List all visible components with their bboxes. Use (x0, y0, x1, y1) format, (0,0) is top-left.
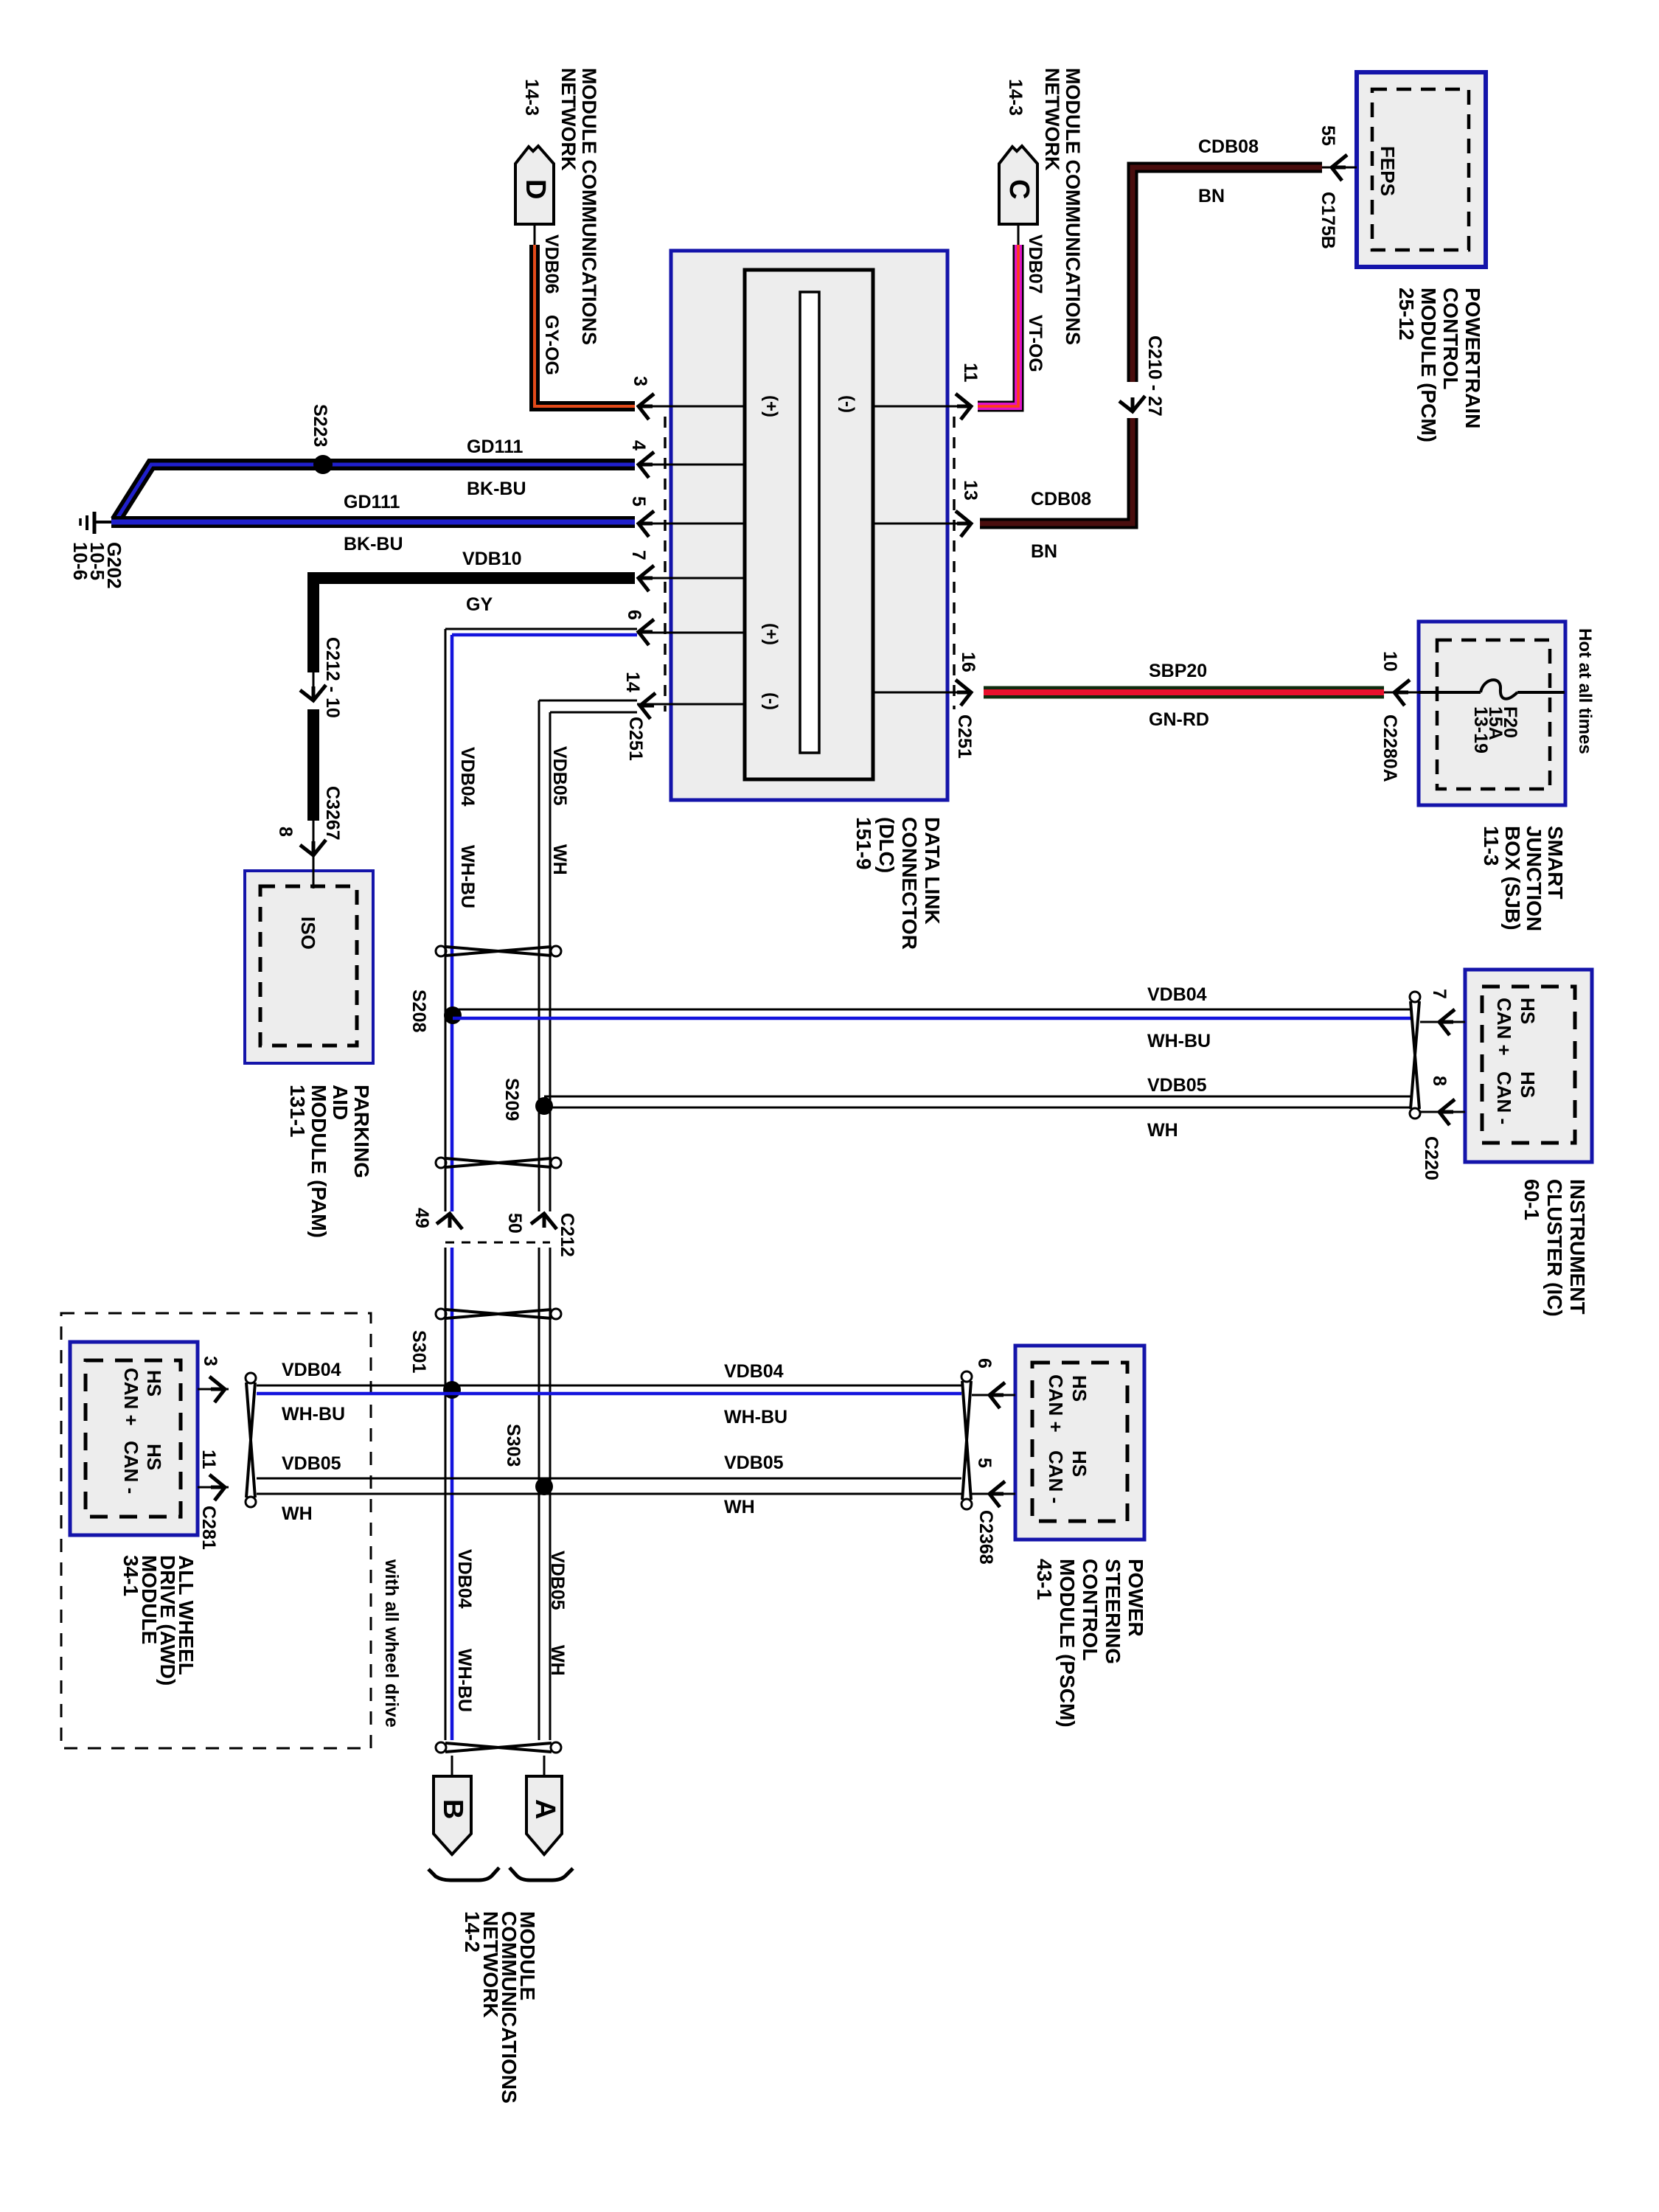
svg-text:S301: S301 (408, 1330, 429, 1373)
svg-text:B: B (437, 1799, 468, 1819)
svg-text:14-3: 14-3 (1005, 79, 1026, 116)
svg-text:NETWORK: NETWORK (1041, 68, 1063, 171)
box: power steering control module (PSCM) (1015, 1346, 1144, 1540)
svg-text:6: 6 (624, 610, 644, 620)
svg-text:60-1: 60-1 (1520, 1179, 1543, 1220)
svg-text:49: 49 (411, 1208, 432, 1228)
wire VDB07 VT-OG from C to DLC pin 11 (978, 245, 1018, 406)
svg-text:S209: S209 (501, 1078, 522, 1121)
svg-text:7: 7 (1429, 989, 1450, 999)
svg-text:CONTROL: CONTROL (1079, 1559, 1102, 1660)
svg-text:(+): (+) (761, 395, 781, 417)
in-line connector C212-10 arrow (313, 672, 315, 699)
svg-text:HS: HS (1068, 1375, 1091, 1402)
svg-text:SMART: SMART (1544, 826, 1567, 900)
pin 6 of PSCM (972, 1394, 1015, 1397)
box: data link connector (DLC) (671, 251, 947, 800)
svg-text:10: 10 (1380, 651, 1400, 672)
connector C251 dashed line right (953, 417, 956, 709)
pin 5 of PSCM (972, 1493, 1015, 1495)
wire SBP20 GN-RD from SJB to DLC pin 16 (984, 686, 1384, 699)
pin line into PAM (313, 855, 315, 888)
wire stub from C (1018, 224, 1020, 246)
svg-text:VDB04: VDB04 (457, 747, 478, 807)
box: all wheel drive module (AWD) (70, 1342, 198, 1535)
svg-text:VDB10: VDB10 (462, 549, 522, 569)
svg-text:CAN -: CAN - (1045, 1450, 1067, 1503)
box: parking aid module (PAM) (245, 871, 373, 1063)
DLC internal pin lines right (pins 11,13,16) (873, 406, 970, 408)
twisted pair symbol 1 (445, 947, 552, 956)
svg-text:PARKING: PARKING (350, 1085, 373, 1178)
svg-text:WH: WH (724, 1497, 755, 1517)
svg-text:POWER: POWER (1124, 1559, 1147, 1637)
svg-text:C281: C281 (198, 1506, 219, 1550)
svg-text:VDB05: VDB05 (724, 1453, 784, 1473)
svg-text:VDB04: VDB04 (282, 1360, 341, 1380)
svg-text:NETWORK: NETWORK (557, 68, 580, 171)
svg-text:13-19: 13-19 (1470, 706, 1491, 754)
svg-text:7: 7 (628, 550, 649, 560)
svg-text:CONTROL: CONTROL (1439, 288, 1462, 389)
connector C251 dashed line left (664, 417, 667, 712)
svg-text:VDB04: VDB04 (724, 1361, 784, 1382)
pin 7 of IC (1420, 1021, 1465, 1023)
svg-text:SBP20: SBP20 (1149, 661, 1207, 681)
svg-text:WH-BU: WH-BU (1147, 1031, 1211, 1051)
svg-text:with all wheel drive: with all wheel drive (381, 1559, 402, 1728)
svg-text:CONNECTOR: CONNECTOR (898, 817, 921, 950)
IC inner dashed outline (1482, 987, 1575, 1143)
svg-text:BK-BU: BK-BU (467, 479, 526, 499)
svg-text:VDB05: VDB05 (549, 746, 570, 806)
svg-text:5: 5 (628, 496, 649, 507)
dashed enclosure: with all wheel drive option (61, 1313, 371, 1748)
svg-text:GD111: GD111 (467, 437, 524, 457)
svg-text:11: 11 (198, 1450, 219, 1470)
svg-text:WH: WH (549, 844, 570, 875)
wire VDB05 WH vertical (strand 2) (550, 712, 637, 714)
svg-text:CAN +: CAN + (1493, 998, 1515, 1056)
svg-text:C175B: C175B (1318, 192, 1338, 249)
twisted pair symbol at IC (1411, 1001, 1419, 1109)
svg-text:VDB04: VDB04 (454, 1549, 475, 1609)
female terminal arrow at SJB pin 10 (1394, 680, 1410, 706)
svg-text:WH-BU: WH-BU (724, 1407, 787, 1427)
svg-text:C210 - 27: C210 - 27 (1144, 335, 1165, 417)
pin 11 of AWD (198, 1486, 229, 1489)
svg-text:CAN -: CAN - (120, 1441, 142, 1494)
svg-text:D: D (520, 179, 551, 199)
svg-text:50: 50 (504, 1213, 525, 1234)
svg-text:BK-BU: BK-BU (344, 534, 403, 554)
wire VDB04 WH-BU AWD pin 3 to PSCM pin 6 (257, 1385, 961, 1387)
female terminal arrow at PCM pin 55 (1332, 155, 1347, 181)
wire GD111 BK-BU ground to DLC pin 5 (lower) (111, 516, 635, 528)
twisted pair symbol at AWD (246, 1382, 255, 1498)
svg-text:HS: HS (1517, 998, 1539, 1024)
svg-text:C212 - 10: C212 - 10 (322, 637, 343, 718)
svg-text:8: 8 (1429, 1076, 1450, 1086)
svg-text:Hot at all times: Hot at all times (1575, 628, 1595, 754)
svg-text:8: 8 (275, 827, 296, 837)
svg-text:CLUSTER (IC): CLUSTER (IC) (1543, 1179, 1566, 1317)
svg-text:11-3: 11-3 (1480, 826, 1503, 866)
svg-text:(-): (-) (838, 395, 858, 413)
svg-text:C2368: C2368 (975, 1510, 996, 1565)
pin line into PCM (1321, 167, 1357, 169)
wire VDB10 from C212 to C3267 (307, 709, 319, 821)
SJB inner dashed outline (1437, 640, 1550, 789)
pin 8 of IC (1420, 1111, 1465, 1113)
DLC center key slot (800, 292, 819, 753)
svg-text:STEERING: STEERING (1102, 1559, 1124, 1664)
off-page arrow C (999, 146, 1037, 224)
svg-text:GD111: GD111 (344, 492, 400, 512)
svg-text:VT-OG: VT-OG (1025, 315, 1046, 372)
PAM inner dashed outline (260, 886, 357, 1046)
DLC inner connector body (745, 270, 873, 779)
svg-text:MODULE COMMUNICATIONS: MODULE COMMUNICATIONS (578, 68, 600, 345)
AWD inner dashed outline (86, 1360, 181, 1517)
svg-text:C220: C220 (1421, 1136, 1441, 1180)
svg-text:C251: C251 (954, 714, 975, 759)
wire VDB05 WH AWD pin 11 to PSCM pin 5 (257, 1478, 961, 1480)
svg-text:GN-RD: GN-RD (1149, 709, 1209, 730)
svg-text:ISO: ISO (297, 917, 319, 950)
svg-text:10-6: 10-6 (69, 542, 91, 580)
svg-text:C: C (1004, 179, 1034, 199)
svg-text:FEPS: FEPS (1377, 146, 1399, 196)
svg-text:(DLC): (DLC) (875, 817, 898, 873)
svg-text:MODULE (PAM): MODULE (PAM) (307, 1085, 330, 1238)
svg-text:5: 5 (974, 1458, 995, 1468)
svg-text:VDB07: VDB07 (1025, 234, 1046, 294)
svg-text:C212: C212 (557, 1213, 577, 1257)
svg-text:C3267: C3267 (322, 786, 343, 841)
svg-text:HS: HS (1068, 1450, 1091, 1477)
svg-text:VDB06: VDB06 (541, 234, 562, 294)
wire VDB04 WH-BU from S208 to IC pin 7 (453, 1009, 1411, 1011)
svg-text:55: 55 (1318, 125, 1338, 146)
twisted pair symbol 2 (445, 1158, 552, 1167)
svg-text:34-1: 34-1 (119, 1555, 142, 1596)
wire GD111 BK-BU ground to DLC pin 4 (upper) (116, 465, 635, 521)
svg-text:CDB08: CDB08 (1198, 136, 1259, 157)
svg-text:GY: GY (466, 594, 493, 615)
splice S208 (444, 1006, 462, 1024)
svg-text:C2280A: C2280A (1380, 714, 1400, 782)
in-line connector C3267 arrow (313, 821, 315, 854)
svg-text:14-3: 14-3 (521, 79, 542, 116)
svg-text:(-): (-) (761, 692, 781, 710)
svg-text:3: 3 (200, 1356, 220, 1366)
wire VDB06 GY-OG from D to DLC pin 3 (535, 245, 635, 406)
splice S303 (535, 1478, 553, 1495)
svg-text:4: 4 (628, 440, 649, 451)
svg-text:VDB05: VDB05 (282, 1453, 341, 1474)
svg-text:VDB05: VDB05 (547, 1551, 568, 1610)
svg-text:131-1: 131-1 (286, 1085, 309, 1138)
svg-text:POWERTRAIN: POWERTRAIN (1461, 288, 1484, 428)
svg-text:13: 13 (960, 480, 981, 501)
svg-text:11: 11 (960, 363, 981, 383)
PCM inner dashed outline (1372, 89, 1469, 250)
svg-text:WH-BU: WH-BU (457, 845, 478, 908)
svg-text:CAN +: CAN + (1045, 1374, 1067, 1433)
ground G202 symbol (93, 512, 97, 534)
box: instrument cluster (IC) (1465, 970, 1592, 1162)
svg-text:C251: C251 (625, 717, 646, 761)
svg-text:16: 16 (958, 652, 978, 672)
svg-text:MODULE (PSCM): MODULE (PSCM) (1056, 1559, 1079, 1728)
wire VDB04 WH-BU vertical (blue strand) (452, 633, 637, 637)
wire VDB04 WH-BU vertical (black strand) (445, 628, 637, 630)
svg-text:CAN -: CAN - (1493, 1071, 1515, 1124)
svg-text:BN: BN (1031, 541, 1057, 562)
svg-text:WH: WH (1147, 1120, 1178, 1141)
wire CDB08 BN from C210 to DLC pin 13 (980, 418, 1133, 524)
svg-text:WH: WH (282, 1503, 313, 1524)
splice S301 (443, 1381, 461, 1399)
wire stub to A (543, 1756, 546, 1776)
twisted pair symbol at PSCM (962, 1381, 971, 1500)
svg-text:AID: AID (329, 1085, 352, 1120)
svg-text:HS: HS (1517, 1071, 1539, 1098)
svg-text:43-1: 43-1 (1033, 1559, 1056, 1600)
wire stub from D (534, 224, 536, 246)
svg-text:(+): (+) (761, 623, 781, 645)
splice S223 (313, 455, 333, 474)
wire VDB10 GY from DLC pin 7 to C212 (313, 578, 635, 672)
wire stub to B (451, 1756, 453, 1776)
off-page arrow D (515, 146, 554, 224)
svg-text:A: A (529, 1799, 560, 1819)
box: powertrain control module (PCM) (1357, 72, 1486, 267)
svg-text:MODULE COMMUNICATIONS: MODULE COMMUNICATIONS (1062, 68, 1084, 345)
PSCM inner dashed outline (1032, 1363, 1127, 1521)
continuation brace under A (509, 1868, 573, 1880)
svg-text:S208: S208 (408, 990, 429, 1032)
continuation brace under B (428, 1868, 499, 1880)
svg-text:INSTRUMENT: INSTRUMENT (1566, 1179, 1589, 1315)
twisted pair symbol 3 (445, 1310, 552, 1318)
pin line into SJB (1384, 692, 1419, 694)
svg-text:CAN +: CAN + (120, 1368, 142, 1426)
off-page arrow B (434, 1776, 471, 1854)
svg-text:VDB05: VDB05 (1147, 1075, 1207, 1096)
box: smart junction box (SJB) (1419, 622, 1565, 805)
wire VDB05 WH from S209 to IC pin 8 (544, 1096, 1411, 1098)
svg-text:BOX (SJB): BOX (SJB) (1501, 826, 1524, 931)
svg-text:DATA LINK: DATA LINK (921, 817, 944, 925)
splice S209 (535, 1097, 553, 1115)
wire CDB08 BN from PCM to connector C210 (1133, 167, 1322, 382)
svg-text:WH: WH (547, 1645, 568, 1676)
fuse F20 15A inside SJB (1419, 691, 1481, 694)
twisted pair symbol 4 (445, 1743, 552, 1752)
off-page arrow A (526, 1776, 562, 1854)
svg-text:VDB04: VDB04 (1147, 984, 1207, 1005)
svg-text:HS: HS (143, 1444, 165, 1470)
svg-text:CDB08: CDB08 (1031, 489, 1091, 509)
svg-text:25-12: 25-12 (1395, 288, 1418, 341)
svg-text:6: 6 (974, 1358, 995, 1368)
wire VDB05 WH vertical (strand 1) (539, 700, 637, 702)
svg-text:151-9: 151-9 (852, 817, 875, 870)
svg-text:MODULE (PCM): MODULE (PCM) (1417, 288, 1440, 442)
svg-text:BN: BN (1198, 186, 1225, 206)
svg-text:3: 3 (630, 376, 650, 386)
svg-text:14-2: 14-2 (461, 1911, 484, 1952)
svg-text:JUNCTION: JUNCTION (1523, 826, 1545, 931)
svg-text:WH-BU: WH-BU (454, 1649, 475, 1712)
pin 3 of AWD (198, 1388, 229, 1391)
DLC internal pin lines left (pins 3,4,5,7,6,14) (637, 406, 745, 408)
svg-text:14: 14 (622, 672, 643, 692)
svg-text:WH-BU: WH-BU (282, 1404, 345, 1425)
svg-text:GY-OG: GY-OG (541, 315, 562, 375)
svg-text:HS: HS (143, 1370, 165, 1397)
svg-text:S223: S223 (310, 404, 330, 447)
svg-text:S303: S303 (503, 1424, 524, 1467)
in-line connector C210-27 arrow (1132, 398, 1134, 410)
